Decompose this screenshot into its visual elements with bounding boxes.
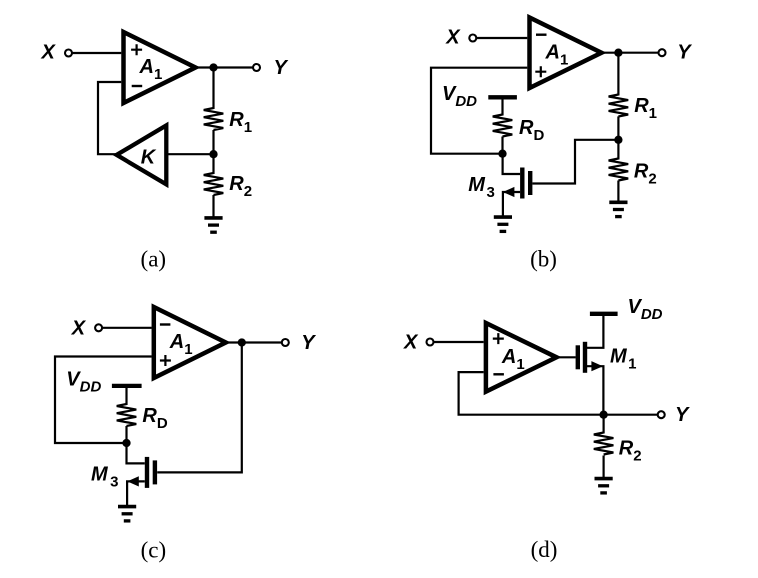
input terminal X (b) bbox=[469, 35, 476, 42]
svg-text:Y: Y bbox=[675, 404, 690, 426]
transistor M1 (d) bbox=[576, 345, 580, 369]
input terminal X (a) bbox=[65, 50, 72, 57]
svg-text:(a): (a) bbox=[141, 246, 167, 271]
wire A1 + input feedback (b) bbox=[431, 68, 527, 154]
wire node to R2 (b) bbox=[617, 140, 619, 160]
input terminal X (c) bbox=[95, 324, 102, 331]
ground (a) bbox=[204, 216, 222, 220]
wire R1 to node (b) bbox=[617, 116, 619, 139]
wire A1 + input feedback (c) bbox=[55, 357, 152, 444]
svg-text:(c): (c) bbox=[141, 538, 167, 563]
ground below M3 (c) bbox=[118, 505, 136, 509]
svg-text:(b): (b) bbox=[530, 246, 557, 271]
resistor RD (b) bbox=[493, 115, 513, 137]
wire A1 - input feedback (d) bbox=[459, 372, 604, 415]
ground below R2 (b) bbox=[609, 201, 627, 205]
wire VDD to RD (c) bbox=[125, 386, 127, 405]
A1 - input pin label (a) bbox=[132, 85, 143, 87]
resistor R1 (a) bbox=[204, 108, 224, 130]
op-amp A1 (c) bbox=[154, 307, 226, 378]
transistor M3 drain wire (b) bbox=[503, 154, 520, 174]
wire RD to node (c) bbox=[125, 426, 127, 443]
resistor R2 (d) bbox=[594, 433, 614, 455]
resistor R1 (b) bbox=[609, 95, 629, 117]
transistor M3 (c) bbox=[145, 457, 149, 488]
node between R1 and R2 (a) bbox=[209, 150, 217, 158]
svg-text:(d): (d) bbox=[531, 537, 558, 562]
A1 + input pin label (a) bbox=[131, 44, 142, 55]
wire X to A1 - input (c) bbox=[102, 327, 152, 329]
transistor M1 source wire with arrow (d) bbox=[585, 366, 603, 415]
A1 + input pin label (c) bbox=[160, 355, 171, 366]
node output junction (b) bbox=[614, 49, 622, 57]
wire RD to node (b) bbox=[501, 137, 503, 154]
M1 source arrow (d) bbox=[591, 361, 603, 371]
output terminal Y (a) bbox=[253, 64, 260, 71]
wire X to A1 + input (a) bbox=[72, 52, 122, 54]
op-amp A1 (b) bbox=[530, 18, 602, 89]
svg-text:Y: Y bbox=[677, 41, 692, 63]
resistor RD (c) bbox=[117, 404, 137, 426]
wire output node to R1 (a) bbox=[212, 68, 214, 110]
transistor M1 drain wire (d) bbox=[585, 314, 603, 348]
resistor R2 (b) bbox=[609, 159, 629, 181]
wire A1 output to Y (c) bbox=[226, 341, 285, 343]
wire R2 to ground (b) bbox=[617, 181, 619, 202]
svg-text:X: X bbox=[403, 332, 419, 354]
node Y junction (d) bbox=[599, 411, 607, 419]
A1 + input pin label (d) bbox=[493, 333, 504, 344]
wire A1 - input to K output (a) bbox=[98, 82, 121, 154]
svg-text:X: X bbox=[445, 26, 461, 48]
M3 source arrow (c) bbox=[127, 476, 139, 486]
A1 - input pin label (d) bbox=[493, 373, 504, 375]
wire X to A1 + input (d) bbox=[433, 341, 483, 343]
transistor M3 source wire with arrow (c) bbox=[127, 481, 145, 506]
op-amp A1 (a) bbox=[124, 32, 196, 103]
svg-text:K: K bbox=[141, 146, 157, 168]
wire R2 to ground (a) bbox=[212, 195, 214, 217]
wire A1 output to M1 gate (d) bbox=[557, 356, 576, 358]
wire node to R2 (a) bbox=[212, 154, 214, 174]
input terminal X (d) bbox=[427, 339, 434, 346]
ground below R2 (d) bbox=[595, 477, 613, 481]
M3 source arrow (b) bbox=[503, 187, 515, 197]
wire node to terminal Y (d) bbox=[604, 414, 662, 416]
wire VDD to RD (b) bbox=[501, 97, 503, 115]
output terminal Y (b) bbox=[659, 49, 666, 56]
wire A1 output to Y (a) bbox=[196, 66, 257, 68]
node RD drain (b) bbox=[498, 150, 506, 158]
A1 + input pin label (b) bbox=[535, 66, 546, 77]
wire output node to M3 gate (c) bbox=[157, 343, 242, 473]
wire X to A1 - input (b) bbox=[476, 37, 527, 39]
node output junction (a) bbox=[209, 63, 217, 71]
node output junction (c) bbox=[238, 338, 246, 346]
node between R1 and R2 (b) bbox=[614, 136, 622, 144]
op-amp A1 (d) bbox=[486, 323, 557, 392]
wire A1 output to Y (b) bbox=[602, 52, 663, 54]
supply VDD bar (c) bbox=[112, 384, 142, 388]
svg-text:Y: Y bbox=[301, 332, 316, 354]
wire output node to R1 (b) bbox=[617, 53, 619, 96]
supply VDD bar (d) bbox=[590, 312, 618, 316]
A1 - input pin label (b) bbox=[536, 34, 547, 36]
transistor M3 drain wire (c) bbox=[127, 443, 145, 463]
svg-text:Y: Y bbox=[274, 57, 289, 79]
buffer K (a) bbox=[117, 125, 167, 184]
node RD drain (c) bbox=[122, 439, 130, 447]
A1 - input pin label (c) bbox=[160, 323, 171, 325]
transistor M3 (b) bbox=[520, 168, 524, 199]
output terminal Y (d) bbox=[658, 411, 665, 418]
output terminal Y (c) bbox=[282, 339, 289, 346]
wire node to M3 gate (b) bbox=[532, 140, 618, 184]
supply VDD bar (b) bbox=[488, 95, 517, 99]
transistor M3 source wire with arrow (b) bbox=[503, 192, 520, 217]
wire R2 to ground (d) bbox=[602, 456, 604, 479]
wire node to R2 (d) bbox=[602, 415, 604, 434]
ground below M3 (b) bbox=[494, 215, 512, 219]
resistor R2 (a) bbox=[204, 173, 224, 195]
wire R1 to node (a) bbox=[212, 130, 214, 154]
svg-text:X: X bbox=[41, 41, 57, 63]
wire K input to R1R2 node (a) bbox=[166, 153, 213, 155]
svg-text:X: X bbox=[71, 317, 87, 339]
